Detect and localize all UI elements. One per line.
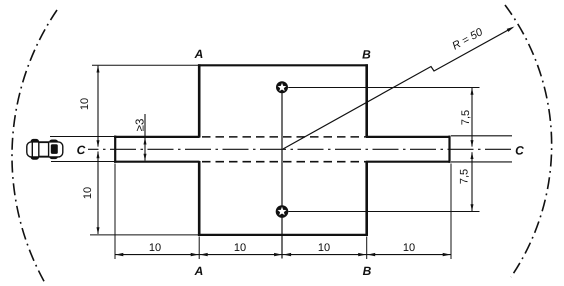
svg-text:10: 10 [82,187,94,199]
vehicle (top view) at left on line C-C [27,140,63,159]
svg-text:≥3: ≥3 [135,119,147,132]
svg-text:10: 10 [403,242,415,254]
lamp symbol (circled star) bottom [276,205,289,218]
strip top edge thin extension (left, toward car) [50,136,115,138]
dimension >=3 of strip width [144,114,147,161]
svg-text:A: A [194,264,204,278]
cross outline: column B upper segment [365,64,368,137]
cross outline: square bottom edge A-B [198,234,368,236]
bottom dimension extension line at strip right end [450,164,452,260]
left dimension line 10 (lower) [97,151,100,234]
cabin box [39,142,49,156]
bottom dimension extension line at B [366,237,368,260]
cross outline: column A upper segment [198,64,201,137]
bottom dimension extension line at strip left end [114,164,116,260]
svg-text:B: B [363,264,372,278]
strip bottom edge thin extension (left, toward car) [51,161,115,163]
right dimension line 7,5 (upper) [471,88,474,148]
right boundary arc of 50 m radius circle (dash-dot) [505,5,552,277]
body [27,142,63,157]
svg-text:10: 10 [79,98,91,110]
R=50 leader arrowhead at arc [507,27,515,32]
svg-text:C: C [515,144,524,158]
bottom dimension extension line at A [198,237,200,260]
wheels [31,140,38,145]
bottom edge extension line (left) [90,234,198,236]
svg-text:7,5: 7,5 [459,169,471,184]
front bumper line [31,142,33,157]
svg-text:B: B [362,48,371,62]
left boundary arc of 50 m radius circle (dash-dot) [12,10,57,283]
cross outline: strip right cap [448,136,450,163]
svg-text:A: A [194,47,204,61]
svg-text:7,5: 7,5 [460,110,472,125]
svg-text:10: 10 [318,242,330,254]
bottom dimension line with arrows (4 x 10) [115,253,450,256]
lamp symbol (circled star) top [276,81,288,93]
cross outline: square top edge A-B [198,64,368,66]
cross outline: column B lower segment [365,161,368,236]
vertical line through lamp positions and centre [281,93,283,259]
cross outline: strip top-left edge [114,136,200,138]
cross outline: column A lower segment [198,161,201,236]
svg-text:10: 10 [149,242,161,254]
right dimension line 7,5 (lower) [471,152,474,212]
reference line from bottom lamp to 7,5 dimension [288,211,479,213]
cross outline: strip bottom-right edge [366,161,451,163]
top edge extension line (left) [92,64,198,66]
R=50 leader line with jog [283,28,513,149]
hidden strip bottom edge inside square (dashed) [202,161,366,163]
left dimension line 10 (upper) [97,65,100,147]
dark rear block [51,144,58,154]
cross outline: strip bottom-left edge [114,161,200,163]
hidden strip top edge inside square (dashed) [202,136,366,138]
cross outline: strip left cap [114,136,116,163]
reference line from top lamp to 7,5 dimension [288,87,479,89]
strip bottom edge thin extension (right of cap) [451,161,512,163]
cross outline: strip top-right edge [366,136,451,138]
svg-text:10: 10 [234,242,246,254]
strip top edge thin extension (right of cap) [451,135,512,137]
svg-text:C: C [77,143,86,157]
centerline C-C (dash-dot) [88,148,512,150]
